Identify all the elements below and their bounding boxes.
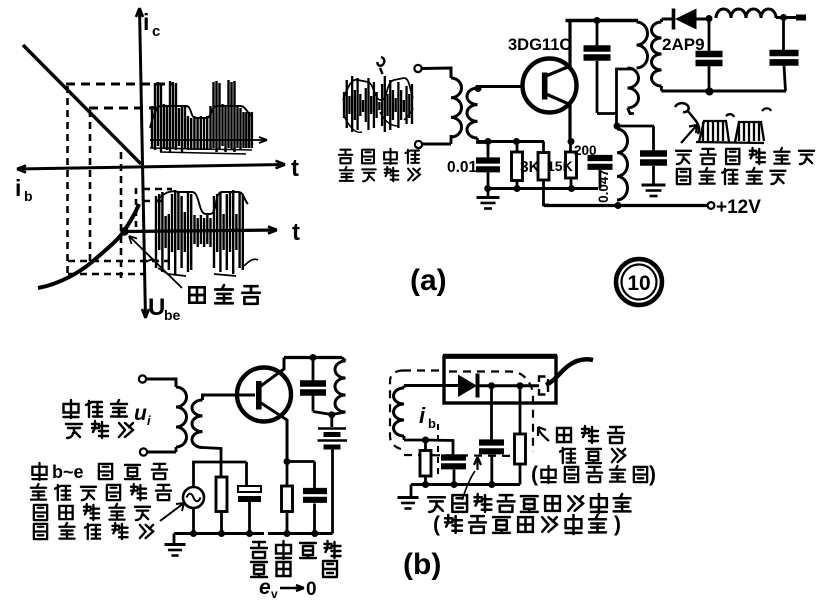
waveform ube	[156, 190, 243, 274]
input terminal bottom	[140, 448, 147, 455]
dashed projection v2	[89, 110, 92, 263]
diode D1 2AP9	[662, 18, 673, 21]
waveform ube axis	[125, 230, 278, 232]
ground symbol	[487, 189, 490, 198]
load line	[23, 45, 141, 164]
svg-text:3K: 3K	[520, 159, 541, 176]
resistor R3 200 emitter	[568, 138, 575, 145]
transistor Q1 collector lead	[546, 21, 570, 77]
capacitor C6 output	[782, 18, 785, 52]
transistor Q1 emitter lead	[546, 94, 570, 142]
detector bottom wire	[662, 90, 787, 93]
wire secondary bottom jog	[203, 448, 222, 463]
wire diode cathode	[479, 384, 539, 387]
svg-text:0.01: 0.01	[447, 159, 478, 176]
waveform ic axis	[150, 139, 267, 141]
figure number 10 circle	[616, 259, 662, 305]
transformer T5 coil	[403, 386, 406, 389]
callout line to source	[160, 503, 184, 521]
capacitor C11	[490, 386, 493, 441]
transformer T1 primary coil	[451, 78, 462, 137]
resistor R7	[519, 386, 522, 434]
svg-text:e: e	[259, 576, 271, 599]
ground symbol	[173, 534, 176, 545]
transformer T2 secondary coil	[614, 123, 621, 130]
svg-text:be: be	[164, 307, 181, 323]
svg-text:15K: 15K	[547, 158, 573, 174]
dashed projection h3	[143, 188, 172, 191]
wire R2 bottom to +12V rail	[544, 180, 550, 205]
annotation arrow	[681, 125, 697, 143]
label pin chengfen line2	[560, 448, 575, 463]
operating point dot	[120, 227, 128, 235]
svg-text:b: b	[428, 416, 436, 431]
label you b-e jian erji line1	[32, 463, 46, 480]
wire	[706, 15, 713, 22]
label zhongpin xinhao shuru line2	[66, 424, 82, 438]
capacitor C9 emitter bypass	[313, 462, 316, 491]
shield box	[444, 357, 556, 403]
svg-text:(b): (b)	[403, 548, 441, 581]
label diudiao tongbu xinhao	[676, 151, 691, 164]
transistor Q1 base bar	[542, 73, 548, 100]
dashed current path	[437, 424, 439, 476]
transistor Q2 collector lead	[258, 358, 284, 389]
label tuxiang dipin line1	[557, 428, 571, 442]
graph horizontal axis ib-t	[17, 165, 285, 170]
transistor Q2 emitter lead	[258, 401, 287, 462]
ground rail	[411, 483, 520, 486]
dashed feedback loop	[390, 371, 403, 450]
svg-text:i: i	[143, 9, 149, 35]
label gongzuodian	[189, 287, 204, 302]
svg-text:i: i	[15, 175, 21, 201]
svg-text:b~e: b~e	[52, 462, 84, 482]
signal source VS circle	[183, 487, 204, 508]
svg-text:0: 0	[306, 579, 317, 600]
svg-text:): )	[614, 513, 621, 536]
wire secondary to bypass cap	[617, 125, 654, 128]
svg-text:t: t	[291, 155, 299, 182]
svg-text:0.047: 0.047	[596, 169, 611, 203]
svg-text:(: (	[531, 463, 538, 486]
label dianrong shi line2	[251, 562, 267, 577]
capacitor C8 electrolytic	[245, 462, 248, 486]
callout arrow tuxiang	[538, 427, 549, 441]
battery B1	[318, 427, 346, 429]
dashed projection h6	[68, 273, 146, 276]
wire base lead	[203, 395, 256, 400]
wire base lead	[478, 87, 524, 89]
svg-text:c: c	[152, 23, 160, 40]
dashed projection h4	[143, 200, 165, 203]
resistor R6	[424, 440, 427, 451]
inductor L1 peaking coil	[716, 9, 776, 18]
collector rail	[284, 356, 342, 359]
capacitor C2 emitter bypass	[588, 155, 613, 161]
resistor R5 emitter	[286, 462, 289, 487]
capacitor C7 collector	[312, 358, 315, 383]
dashed projection h1	[66, 83, 173, 86]
wire to battery	[330, 415, 333, 427]
svg-text:U: U	[148, 294, 165, 321]
label de tuxiang xinhao line3	[34, 505, 47, 520]
waveform ic	[152, 80, 252, 152]
label de shipin xinhao	[677, 169, 690, 184]
transformer T2 primary coil	[637, 21, 638, 23]
input terminal top	[414, 65, 421, 72]
wire T1 secondary bottom to bias rail	[478, 138, 488, 143]
inductor L2 collector load coil	[342, 358, 346, 362]
input terminal bottom	[415, 141, 422, 148]
video waveform sketch	[675, 103, 699, 134]
diode D2	[458, 375, 477, 398]
collector top rail	[566, 19, 639, 23]
label da de zhongpin line2	[340, 167, 354, 181]
svg-text:+12V: +12V	[716, 197, 761, 218]
capacitor C3 collector	[596, 21, 599, 48]
wire battery to rail	[331, 450, 334, 534]
capacitor C10	[441, 454, 466, 460]
transformer T3 primary coil	[660, 19, 663, 22]
capacitor C5 detector	[708, 19, 711, 52]
resistor R2 15K	[542, 142, 545, 153]
input terminal top	[139, 375, 146, 382]
label da de zhongpin line1	[339, 150, 353, 164]
callout arrow up	[462, 471, 475, 500]
ground symbol	[642, 184, 666, 187]
wire tap jog	[597, 114, 617, 126]
transformer T4 primary coil	[176, 387, 187, 447]
input waveform sketch	[344, 76, 412, 132]
transformer T4 secondary coil	[192, 400, 203, 448]
ground rail right	[268, 532, 333, 535]
svg-text:i: i	[147, 413, 151, 428]
capacitor 0.01	[487, 142, 490, 161]
output socket symbol	[539, 377, 546, 383]
svg-text:v: v	[271, 587, 278, 600]
characteristic curve	[38, 204, 139, 288]
svg-text:t: t	[292, 219, 300, 246]
wire source top	[194, 462, 247, 487]
wire source bottom	[192, 508, 195, 534]
graph vertical axis ic/Ube	[140, 8, 146, 318]
wire	[422, 143, 451, 146]
bias rail wire	[478, 140, 544, 143]
resistor R4	[220, 462, 223, 477]
wire output	[776, 16, 806, 19]
dashed projection h2	[89, 107, 160, 110]
svg-text:i: i	[419, 403, 426, 428]
label yingyu fangda line	[428, 497, 445, 512]
svg-text:): )	[649, 463, 656, 486]
transformer T1 secondary coil	[467, 88, 478, 138]
bottom node wire	[404, 440, 453, 456]
label jieshang dianjie line1	[251, 542, 267, 558]
svg-text:10: 10	[627, 272, 650, 295]
svg-text:(: (	[433, 513, 440, 536]
capacitor C4	[652, 126, 655, 152]
+12V supply rail	[544, 204, 711, 207]
dashed projection v3	[120, 152, 123, 278]
operating point callout line	[129, 236, 182, 288]
svg-text:u: u	[134, 402, 147, 425]
svg-text:(a): (a)	[410, 264, 447, 297]
dashed projection v1	[66, 86, 69, 277]
ground symbol	[410, 485, 413, 498]
svg-text:3DG11C: 3DG11C	[508, 36, 571, 54]
wire emitter node	[287, 460, 315, 463]
dashed loop bottom	[404, 455, 528, 456]
+12V terminal	[708, 202, 715, 209]
transistor Q1 3DG11C circle	[523, 59, 577, 113]
transistor Q2 base bar	[256, 381, 262, 410]
dashed projection v4	[135, 188, 138, 231]
wire	[146, 379, 176, 387]
label guan zhengliu er chansheng line2	[31, 484, 46, 500]
resistor R1 3K	[516, 142, 519, 153]
dashed projection h5	[68, 260, 168, 263]
output lead curve	[546, 359, 593, 385]
svg-text:b: b	[24, 188, 33, 204]
bias ground rail	[488, 187, 599, 190]
wire diode anode	[404, 384, 458, 387]
wire	[422, 68, 451, 78]
emitter node	[284, 458, 291, 465]
wire	[147, 451, 176, 454]
label zhongpin xinhao shuru line1	[64, 400, 79, 418]
transistor Q2 circle	[237, 368, 291, 422]
input waveform tick	[377, 57, 384, 74]
label de dipin bufen line4	[34, 524, 47, 539]
ground rail left	[174, 532, 264, 535]
